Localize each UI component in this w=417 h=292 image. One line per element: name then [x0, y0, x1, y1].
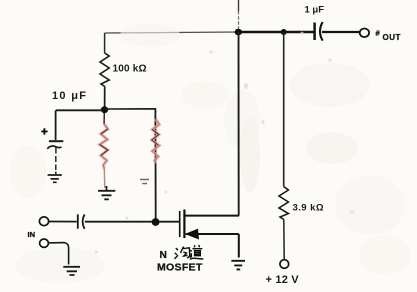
wire from top rail down to resistor R1	[104, 33, 106, 53]
wire C1 to ground (broken scan look)	[55, 147, 57, 174]
wire drain up to node A	[238, 32, 240, 216]
svg-text:100 kΩ: 100 kΩ	[113, 64, 147, 75]
node C junction dot	[101, 106, 108, 113]
wire top rail right (node A to 1uF cap)	[238, 31, 314, 33]
svg-text:OUT: OUT	[383, 33, 401, 42]
svg-text:IN: IN	[28, 230, 36, 239]
resistor R2 (pencil) zigzag core	[100, 124, 108, 169]
terminal IN lower circle	[40, 239, 49, 247]
wire node B down to R4	[283, 32, 285, 187]
svg-text:+ 12 V: + 12 V	[266, 274, 300, 286]
mosfet Q1 channel bar	[183, 210, 185, 239]
terminal OUT circle	[360, 29, 369, 38]
capacitor C2 1uF left plate	[313, 23, 316, 41]
resistor R1 100k zigzag	[100, 53, 109, 87]
wire node C left to 10uF branch	[56, 109, 105, 111]
wire cap to node D to gate	[85, 221, 180, 223]
svg-text:1 μF: 1 μF	[305, 5, 325, 16]
mosfet Q1 drain stub	[184, 215, 239, 217]
capacitor C1 top plate	[49, 140, 63, 142]
resistor R3 (pencil) zigzag core	[152, 119, 160, 164]
wire R4 to +12V terminal	[283, 220, 285, 260]
wire stub above node A	[238, 0, 240, 11]
mosfet Q1 gate bar	[179, 211, 181, 237]
svg-text:N: N	[160, 250, 167, 261]
wire source down to ground	[238, 234, 240, 258]
svg-text:3.9 kΩ: 3.9 kΩ	[293, 203, 324, 214]
wire cap to OUT terminal	[322, 31, 360, 33]
capacitor C2 1uF right curved plate	[320, 22, 323, 41]
wire lower IN to ground	[48, 243, 68, 265]
terminal +12V circle	[280, 260, 289, 269]
terminal IN upper circle	[39, 217, 48, 226]
ground under C1	[48, 175, 62, 182]
small ground mark near R3	[140, 180, 149, 184]
capacitor C3 left plate	[77, 214, 79, 228]
node B junction dot	[281, 29, 287, 35]
wire down to capacitor C1	[55, 110, 57, 140]
resistor R4 3.9k zigzag	[279, 187, 288, 220]
resistor R2 (pencil) zigzag pink wash	[100, 124, 108, 169]
node D junction dot	[152, 218, 160, 226]
resistor R2 (pencil) lead bottom	[103, 169, 106, 188]
wire R1 bottom to node C	[104, 87, 106, 110]
wire node C right to R3 top corner	[105, 109, 156, 112]
wire top rail left (node C top to node A)	[105, 32, 239, 33]
plus sign of C1	[41, 128, 47, 134]
resistor R3 (pencil) zigzag pink wash	[152, 119, 160, 164]
svg-text:MOSFET: MOSFET	[157, 262, 203, 274]
mosfet Q1 source stub with arrow	[186, 233, 239, 235]
capacitor C1 bottom curved plate	[47, 146, 61, 149]
mosfet Q1 source arrowhead	[185, 229, 199, 240]
ground under source	[231, 261, 245, 270]
node A junction dot	[235, 29, 242, 36]
resistor R2 (pencil) lead top	[103, 113, 105, 124]
ground under R2	[98, 186, 115, 199]
label Chinese char dao (way)	[190, 245, 204, 259]
capacitor C3 right curved plate	[83, 214, 85, 228]
label Chinese char gou (channel)	[175, 247, 190, 259]
ground under lower IN	[63, 267, 80, 275]
wire R3 branch vertical (top corner to node D)	[154, 110, 156, 222]
svg-text:10 μF: 10 μF	[52, 90, 87, 102]
wire IN to coupling cap	[49, 221, 77, 223]
